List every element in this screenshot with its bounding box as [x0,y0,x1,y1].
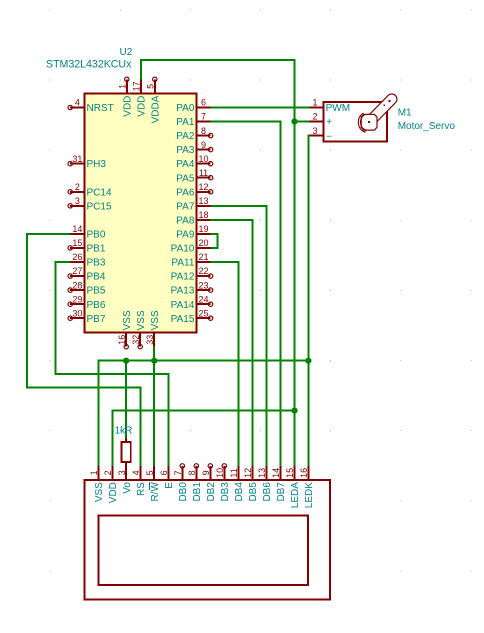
svg-text:PA15: PA15 [171,314,195,325]
svg-text:PB4: PB4 [87,272,106,283]
svg-text:PC15: PC15 [87,201,112,212]
svg-text:5: 5 [145,470,155,475]
svg-text:12: 12 [243,468,253,478]
wire stub VDD rail to servo pin2 (+) [295,121,310,123]
svg-text:PA6: PA6 [176,187,195,198]
svg-text:15: 15 [285,468,295,478]
svg-text:PA4: PA4 [176,159,195,170]
svg-text:VSS: VSS [150,310,161,330]
svg-text:9: 9 [201,140,206,150]
U2 pin 19 PA9 [197,233,211,235]
U2 pin 17 VDD [140,79,142,93]
wire LCD VDD pin2 to LEDA pin15 [112,411,294,466]
svg-text:VDDA: VDDA [151,95,162,123]
LCD pin 6 E [167,466,169,480]
svg-text:14: 14 [72,224,82,234]
svg-text:RS: RS [136,482,147,496]
LCD pin 4 RS [139,466,141,480]
svg-text:VSS: VSS [94,482,105,502]
wire servo pin3 (-) down rail to LCD pin16 (LEDK) [308,136,309,466]
svg-text:16: 16 [299,468,309,478]
svg-text:PB3: PB3 [87,258,106,269]
U2 pin 1 VDD [126,79,128,93]
M1 pin 1 PWM [309,107,323,109]
svg-text:VDD: VDD [123,96,134,117]
svg-text:E: E [164,482,175,489]
U2 pin 24 PA14 [197,303,211,305]
svg-text:DB3: DB3 [220,482,231,502]
servo wheel hub dot [368,121,370,123]
LCD pin 5 R/W [153,466,155,480]
U2 pin 16 VSS [125,333,127,347]
wire VSS horizontal rail to LCD pin1 [98,361,308,466]
LCD pin 15 LEDA [293,466,295,480]
svg-text:3: 3 [117,470,127,475]
servo rotation arc [358,113,365,132]
svg-text:2: 2 [75,182,80,192]
svg-text:2: 2 [103,470,113,475]
U2 pin 30 PB7 [70,317,84,319]
svg-text:26: 26 [72,252,82,262]
svg-text:15: 15 [72,238,82,248]
svg-text:STM32L432KCUx: STM32L432KCUx [46,58,132,70]
svg-text:13: 13 [198,196,208,206]
svg-text:PA1: PA1 [176,117,195,128]
U2 pin 22 PA12 [197,275,211,277]
wire VDD: U2 pin17 up, across top, down right rail to LCD pin15 (LEDA) [141,60,295,466]
U2 pin 9 PA3 [197,149,211,151]
svg-text:14: 14 [271,468,281,478]
junction VDD/servo+ [291,118,297,124]
svg-text:1: 1 [118,84,128,89]
svg-text:VSS: VSS [136,310,147,330]
U2 pin 18 PA8 [197,219,211,221]
U2 pin 32 VSS [139,333,141,347]
svg-text:25: 25 [198,308,208,318]
U2 pin 13 PA7 [197,205,211,207]
LCD pin 9 DB2 [209,466,211,480]
svg-text:22: 22 [198,266,208,276]
LCD pin 13 DB6 [265,466,267,480]
svg-text:DB1: DB1 [192,482,203,502]
LCD pin 10 DB3 [223,466,225,480]
svg-text:21: 21 [198,252,208,262]
U2 pin 21 PA11 [197,261,211,263]
U2 pin 28 PB5 [70,289,84,291]
svg-text:11: 11 [199,168,208,178]
svg-text:PA9: PA9 [176,230,195,241]
svg-text:PA7: PA7 [176,201,195,212]
svg-text:3: 3 [312,126,317,136]
svg-text:PA3: PA3 [176,145,195,156]
svg-text:30: 30 [72,308,82,318]
servo M1 body [324,102,387,141]
LCD pin 1 VSS [97,466,99,480]
wire PB3 to LCD pin6 (E) [55,262,168,466]
svg-text:PA12: PA12 [171,272,195,283]
svg-text:29: 29 [72,294,82,304]
U2 pin 2 PC14 [70,191,84,193]
svg-text:13: 13 [257,468,267,478]
svg-text:23: 23 [198,280,208,290]
junction GND rail / VSS rail [305,358,311,364]
svg-text:28: 28 [72,280,82,290]
svg-text:M1: M1 [398,108,412,119]
wire PA11 down to LCD pin11 (DB4) [211,262,239,466]
U2 pin 33 VSS [153,333,155,347]
IC U2 STM32L432KCUx body [84,93,196,332]
svg-text:1: 1 [89,470,99,475]
svg-text:7: 7 [173,470,183,475]
svg-text:6: 6 [159,470,169,475]
M1 pin 2 + [309,121,323,123]
U2 pin 4 NRST [70,107,84,109]
svg-text:2: 2 [312,112,317,122]
junction VSS/resistor column [123,358,129,364]
svg-text:10: 10 [215,468,225,478]
servo horn holes [383,104,385,106]
svg-text:6: 6 [201,98,206,108]
svg-text:19: 19 [198,224,208,234]
resistor R1 1kR leads [125,438,127,442]
svg-text:11: 11 [229,468,239,477]
svg-text:−: − [326,131,332,142]
svg-text:9: 9 [201,470,211,475]
svg-text:R/W: R/W [150,482,161,502]
wire PA8 down to LCD pin12 (DB5) [211,220,253,466]
wire VSS rail down to resistor [125,361,127,438]
LCD pin 16 LEDK [307,466,309,480]
U2 pin 11 PA5 [197,177,211,179]
svg-text:PH3: PH3 [87,159,107,170]
svg-text:3: 3 [75,196,80,206]
U2 pin 25 PA15 [197,317,211,319]
U2 pin 23 PA13 [197,289,211,291]
svg-text:8: 8 [187,470,197,475]
svg-text:33: 33 [145,335,155,345]
svg-text:24: 24 [198,294,208,304]
svg-text:VSS: VSS [122,310,133,330]
svg-text:PA14: PA14 [171,300,195,311]
wire loop PA9-PA10 [211,234,218,248]
svg-text:PA5: PA5 [176,173,195,184]
U2 pin 6 PA0 [197,107,211,109]
svg-text:16: 16 [117,335,127,345]
svg-text:DB5: DB5 [248,482,259,502]
svg-text:PA10: PA10 [171,244,195,255]
svg-text:4: 4 [75,98,80,108]
svg-text:7: 7 [201,112,206,122]
svg-text:PA0: PA0 [176,103,195,114]
svg-text:LEDA: LEDA [290,482,301,508]
svg-text:DB2: DB2 [206,482,217,502]
svg-text:17: 17 [132,81,142,91]
svg-text:20: 20 [198,238,208,248]
svg-text:27: 27 [72,266,82,276]
svg-text:18: 18 [198,210,208,220]
U2 pin 27 PB4 [70,275,84,277]
resistor R1 body [122,442,131,462]
svg-text:PWM: PWM [326,103,350,114]
svg-text:5: 5 [146,84,156,89]
U2 pin 31 PH3 [70,163,84,165]
svg-text:PA8: PA8 [176,216,195,227]
svg-text:Motor_Servo: Motor_Servo [398,121,456,132]
U2 pin 10 PA4 [197,163,211,165]
LCD pin 3 Vo [125,466,127,480]
svg-text:+: + [326,117,332,128]
wire PA0 to servo pin1 PWM [211,107,310,109]
svg-text:NRST: NRST [87,103,114,114]
servo horn drawing [365,94,397,126]
svg-text:DB4: DB4 [234,482,245,502]
svg-text:10: 10 [198,154,208,164]
svg-text:VDD: VDD [108,482,119,503]
svg-text:PA11: PA11 [171,258,194,269]
LCD pin 2 VDD [111,466,113,480]
svg-text:PB0: PB0 [87,230,106,241]
M1 pin 3 - [309,135,323,137]
LCD display window [99,515,309,585]
svg-text:U2: U2 [120,47,133,58]
U2 pin 7 PA1 [197,121,211,123]
svg-text:12: 12 [198,182,208,192]
U2 pin 3 PC15 [70,205,84,207]
svg-text:PC14: PC14 [87,187,112,198]
U2 pin 26 PB3 [70,261,84,263]
svg-text:PA2: PA2 [176,131,195,142]
svg-text:1kR: 1kR [115,426,133,437]
LCD pin 12 DB5 [251,466,253,480]
wire U2 pin33 VSS down to rail [153,347,155,361]
U2 pin 29 PB6 [70,303,84,305]
junction VSS/pin33 column [151,358,157,364]
svg-text:32: 32 [131,335,141,345]
svg-text:PB7: PB7 [87,314,106,325]
svg-text:LEDK: LEDK [304,482,315,508]
svg-text:4: 4 [131,470,141,475]
wire PA7 down to LCD pin13 (DB6) [211,206,267,466]
svg-text:DB7: DB7 [276,482,287,502]
junction VDD/LEDA wire [291,408,297,414]
svg-text:PA13: PA13 [171,286,195,297]
svg-text:PB1: PB1 [87,244,106,255]
U2 pin 5 VDDA [154,79,156,93]
svg-text:PB6: PB6 [87,300,106,311]
svg-text:DB0: DB0 [178,482,189,502]
wire PA1 down to LCD pin14 (DB7) [211,122,281,466]
LCD pin 7 DB0 [181,466,183,480]
LCD pin 11 DB4 [237,466,239,480]
U2 pin 12 PA6 [197,191,211,193]
svg-text:8: 8 [201,126,206,136]
U2 pin 8 PA2 [197,135,211,137]
svg-text:1: 1 [312,98,317,108]
svg-text:VDD: VDD [137,96,148,117]
LCD pin 8 DB1 [195,466,197,480]
svg-text:PB5: PB5 [87,286,106,297]
svg-text:Vo: Vo [122,482,133,494]
svg-text:31: 31 [72,154,82,164]
U2 pin 14 PB0 [70,233,84,235]
wire R/W column down from VSS rail to LCD pin5 [153,361,155,466]
servo wheel octagon [361,114,377,130]
U2 pin 20 PA10 [197,247,211,249]
U2 pin 15 PB1 [70,247,84,249]
LCD J1 body [84,480,330,600]
svg-text:DB6: DB6 [262,482,273,502]
wire PB0 to LCD pin4 (RS) [27,234,141,466]
LCD pin 14 DB7 [279,466,281,480]
